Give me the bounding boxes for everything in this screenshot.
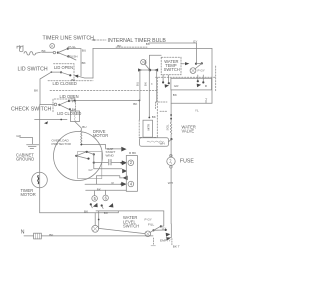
svg-text:Y: Y: [150, 83, 154, 85]
lid switch pivot: [60, 71, 62, 73]
drop right: [156, 70, 158, 102]
wire to check drop: [40, 72, 51, 105]
ground wire GR: [20, 138, 33, 144]
timer motor circle: [32, 172, 48, 188]
triangle to R BK: [121, 147, 126, 152]
terminal circle 4: [128, 181, 134, 187]
svg-text:TIMER LINE SWITCH: TIMER LINE SWITCH: [43, 36, 95, 42]
fuse wire upper: [170, 139, 172, 157]
contact PUSH: [67, 55, 69, 57]
svg-text:N: N: [21, 230, 25, 236]
dashed stub below rail: [171, 239, 173, 246]
svg-text:MTR: MTR: [147, 123, 151, 130]
long dashed separator: [50, 89, 157, 91]
lid switch dashed box: [54, 64, 75, 81]
svg-text:GR: GR: [16, 134, 21, 138]
switch blades: [58, 49, 67, 56]
inline connector triangles: [122, 169, 127, 174]
fuse: [167, 157, 175, 165]
svg-text:LID CLOSED: LID CLOSED: [57, 111, 81, 116]
drop left: [139, 70, 141, 101]
tail dashes: [152, 238, 154, 245]
svg-text:EMPTY: EMPTY: [160, 239, 171, 243]
winding to wire: [81, 144, 105, 146]
terminal circle 2: [128, 160, 134, 166]
water valve drop: [170, 90, 172, 123]
contact up: [68, 100, 70, 102]
svg-text:SWITCH: SWITCH: [164, 67, 180, 72]
water valve coil: [170, 122, 171, 134]
water level connector circle: [145, 231, 151, 237]
terminal block box: [126, 156, 137, 192]
motor main winding: [81, 131, 82, 145]
svg-text:GROUND: GROUND: [16, 156, 34, 161]
check aux wire: [35, 118, 67, 120]
left cluster: [163, 75, 169, 82]
svg-text:PU: PU: [70, 96, 74, 100]
dashed corner: [156, 102, 167, 109]
svg-text:WH: WH: [168, 181, 173, 185]
water level feed: [98, 211, 100, 228]
contact lid closed: [69, 74, 71, 76]
bottom rail from N: [24, 235, 34, 237]
svg-text:LID OPEN: LID OPEN: [60, 94, 79, 99]
start switch cluster: [75, 155, 77, 157]
drop mid: [148, 70, 150, 118]
svg-text:WIND: WIND: [106, 153, 115, 157]
svg-text:PUSH: PUSH: [69, 55, 78, 59]
svg-text:FUSE: FUSE: [180, 158, 194, 164]
svg-text:MOTOR: MOTOR: [93, 133, 108, 138]
svg-text:GY: GY: [193, 39, 197, 43]
jog wire: [97, 176, 123, 178]
push stub: [68, 56, 76, 60]
svg-text:LID SWITCH: LID SWITCH: [18, 66, 48, 72]
contact down: [69, 108, 71, 110]
bulb node row: [149, 69, 152, 72]
N connector box: [34, 233, 42, 239]
svg-text:SOL: SOL: [166, 124, 170, 130]
run wire corner: [106, 145, 121, 149]
check switch wire: [40, 104, 54, 106]
contact row solid box: [171, 78, 212, 90]
winding rounded box: [140, 138, 169, 147]
line cord plug: [17, 46, 23, 52]
GY wire: [149, 43, 197, 64]
box left edge: [92, 48, 94, 78]
svg-text:MOTOR: MOTOR: [21, 192, 36, 197]
svg-text:R BK: R BK: [129, 151, 137, 155]
WH diagonal: [169, 139, 172, 142]
timer line switch cam circle: [50, 44, 55, 49]
empty triangles: [166, 233, 171, 241]
timer motor vertical wire: [39, 105, 41, 213]
internal timer bulb pointer: [92, 39, 106, 41]
rail from fuse: [166, 224, 171, 238]
triangle to terminal 2: [122, 160, 127, 165]
timer box top and right rail: [93, 48, 212, 103]
dashed row and edges: [156, 76, 216, 78]
bulb feed stub: [149, 55, 161, 70]
wire to long bus: [69, 100, 139, 103]
small vertical box: [143, 120, 153, 137]
check pivot: [58, 104, 60, 106]
svg-text:PROTECTOR: PROTECTOR: [52, 142, 72, 146]
bottom wires: [96, 210, 164, 212]
drive motor circle: [54, 132, 103, 181]
right cluster: [198, 75, 204, 82]
wire to box edge: [78, 76, 93, 78]
lid blade: [61, 72, 70, 75]
svg-text:LID OPEN: LID OPEN: [54, 65, 73, 70]
svg-text:WH: WH: [160, 141, 165, 145]
svg-text:BK T: BK T: [173, 245, 180, 249]
wire mid connector: [95, 168, 122, 170]
svg-text:BU: BU: [82, 125, 86, 129]
small component box: [71, 111, 80, 122]
motor lower terminals: [92, 196, 98, 202]
capacitor wire: [94, 161, 121, 163]
check open terminal: [54, 103, 57, 106]
svg-text:YL: YL: [195, 108, 199, 112]
svg-text:Y: Y: [205, 97, 207, 101]
fuse wire lower: [170, 168, 172, 224]
wire to terminal 4: [85, 183, 121, 185]
capacitor plates: [109, 159, 111, 165]
svg-text:GY: GY: [162, 226, 166, 230]
line cord squiggle: [24, 52, 41, 55]
water level pivot: [152, 229, 154, 231]
start switch box: [78, 151, 102, 178]
svg-text:BU: BU: [82, 48, 86, 52]
svg-text:GR: GR: [174, 84, 179, 88]
Y stub: [205, 100, 207, 103]
water temp switch dashed box: [161, 57, 181, 74]
temp connector circle: [190, 68, 196, 74]
cabinet ground symbol: [27, 145, 39, 149]
check dashed box: [53, 99, 76, 112]
svg-text:P GY: P GY: [145, 218, 152, 222]
connector circle X: [92, 225, 99, 232]
temp feed node: [195, 63, 197, 65]
wire BU corner: [68, 49, 81, 76]
check blades: [59, 101, 68, 109]
svg-text:BU: BU: [136, 82, 140, 86]
svg-text:FILL: FILL: [148, 222, 154, 226]
start switch lower wire: [86, 189, 127, 191]
dashed line above lid closed: [48, 80, 93, 82]
wire from box to winding: [75, 122, 82, 131]
fill contact riser: [161, 211, 164, 227]
contact PULL: [67, 48, 69, 50]
lid switch node: [51, 71, 53, 73]
dashed under bulb text: [116, 46, 147, 48]
internal timer bulb: [141, 60, 146, 65]
pivot node: [57, 52, 59, 54]
wire into small box: [138, 101, 140, 121]
connector arrow: [74, 75, 78, 78]
aux arrow: [44, 121, 48, 124]
svg-text:P GY: P GY: [198, 69, 205, 73]
svg-text:PULL: PULL: [68, 45, 76, 49]
svg-text:CHECK SWITCH: CHECK SWITCH: [11, 107, 52, 113]
svg-text:SWITCH: SWITCH: [123, 223, 139, 228]
wire to timer line switch: [42, 51, 54, 53]
svg-text:VALVE: VALVE: [182, 129, 195, 134]
open terminal circle: [53, 51, 55, 53]
svg-text:GY: GY: [89, 168, 93, 172]
